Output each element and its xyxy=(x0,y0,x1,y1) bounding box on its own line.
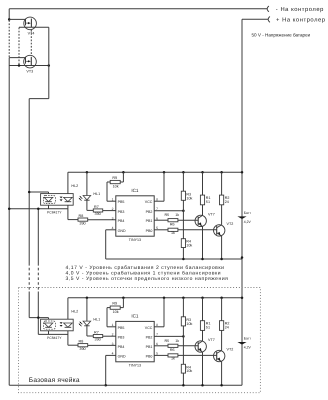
wire dashed VT4 source down xyxy=(18,28,20,66)
junction GND / bottom wire b xyxy=(104,384,107,387)
svg-text:390: 390 xyxy=(95,338,101,342)
junction left rail / minus a xyxy=(8,208,11,211)
wire VCC b xyxy=(154,326,164,328)
svg-text:- На контролер: - На контролер xyxy=(276,7,324,13)
svg-text:1: 1 xyxy=(112,197,114,201)
wire local-minus b xyxy=(38,333,68,335)
transistor VT7 b xyxy=(195,338,215,352)
svg-text:PB1: PB1 xyxy=(146,345,153,349)
wire R7 to pin3 a xyxy=(103,210,116,212)
svg-text:R7: R7 xyxy=(94,205,99,209)
svg-text:1k: 1k xyxy=(175,339,179,343)
svg-text:PC8417Y: PC8417Y xyxy=(47,336,62,340)
transistor VT7 a xyxy=(195,213,215,227)
svg-text:R8: R8 xyxy=(79,214,84,218)
opto photodiode a xyxy=(64,197,73,201)
opto LED diode a xyxy=(44,197,53,201)
node GND rail cell b xyxy=(106,384,242,386)
svg-text:1k: 1k xyxy=(171,357,175,361)
wire R9 down a xyxy=(106,182,108,201)
wire R5 to VT7 base a xyxy=(178,219,198,221)
wire bottom rail left extension b xyxy=(9,384,106,386)
wire R4 bottom b xyxy=(182,373,184,385)
resistor R8 a xyxy=(78,218,88,221)
wire GND down a xyxy=(105,230,107,259)
resistor R6 a xyxy=(168,228,178,231)
wire R3 top b xyxy=(182,298,184,317)
svg-text:Батт: Батт xyxy=(244,211,252,215)
svg-text:390: 390 xyxy=(79,222,85,226)
terminal arc plus xyxy=(268,17,270,23)
left rail top segment xyxy=(8,9,10,20)
wire GND pin4 b xyxy=(106,354,116,356)
wire pin6 b xyxy=(154,345,168,347)
svg-text:1k: 1k xyxy=(171,231,175,235)
resistor R3 a xyxy=(181,191,185,200)
svg-text:R5: R5 xyxy=(164,213,169,217)
left rail dashed segment xyxy=(8,20,10,57)
transistor VT3 MOSFET xyxy=(9,55,36,68)
opto light arrow 2 b xyxy=(60,325,63,327)
resistor R4 a xyxy=(181,239,185,248)
svg-text:R7: R7 xyxy=(94,330,99,334)
wire R2 top b xyxy=(221,298,223,321)
svg-text:390: 390 xyxy=(79,347,85,351)
wire R6 to VT2 base a xyxy=(178,229,217,231)
wire R1 to VT7 a xyxy=(202,205,204,216)
junction anode rail a xyxy=(28,191,31,194)
wire R9 to rail b xyxy=(122,298,124,308)
wire R9 right b xyxy=(120,307,123,309)
wire pin5 b xyxy=(154,354,168,356)
wire R9 left a xyxy=(107,181,110,183)
IC1 ATtiny13 a xyxy=(116,196,154,236)
svg-text:PB0: PB0 xyxy=(146,229,153,233)
svg-text:VT2: VT2 xyxy=(227,222,234,226)
wire R2 to VT2 a xyxy=(221,205,223,225)
opto light arrow 1 b xyxy=(60,322,63,324)
wire to R8 a xyxy=(68,219,78,221)
transistor VT4 MOSFET xyxy=(9,17,36,30)
svg-text:50 V - Напряжение батареи: 50 V - Напряжение батареи xyxy=(252,33,311,38)
svg-text:10k: 10k xyxy=(186,369,192,373)
resistor R2 a xyxy=(220,195,224,205)
optocoupler Ua PC8417Y body xyxy=(41,194,74,206)
wire cell feed rail x29 xyxy=(28,99,30,263)
svg-text:VCC: VCC xyxy=(145,200,153,204)
wire R1 to VT7 b xyxy=(202,330,204,341)
wire pin6 a xyxy=(154,219,168,221)
svg-text:+ На контролер: + На контролер xyxy=(276,17,326,23)
wire HL1 top a xyxy=(86,172,88,195)
node VCC rail cell a xyxy=(68,171,242,173)
wire R6 to VT2 base b xyxy=(178,354,217,356)
wire opto LED lead b xyxy=(48,318,50,335)
LED HL1 arrows a xyxy=(79,196,83,201)
svg-text:PB3: PB3 xyxy=(118,335,125,339)
svg-text:2: 2 xyxy=(112,207,114,211)
svg-text:PB5: PB5 xyxy=(118,200,125,204)
svg-text:10k: 10k xyxy=(113,310,119,314)
svg-text:R5: R5 xyxy=(164,339,169,343)
svg-text:HL2: HL2 xyxy=(71,309,78,313)
wire R3-R4 b xyxy=(182,326,184,364)
wire VT3 chord xyxy=(9,65,49,67)
optocoupler Ub PC8417Y body xyxy=(41,319,74,331)
svg-text:VT3: VT3 xyxy=(26,69,33,73)
resistor R7 a xyxy=(93,209,102,212)
svg-text:PB4: PB4 xyxy=(118,219,125,223)
right rail battery plus xyxy=(241,19,243,385)
wire dashed VT4-VT3 link xyxy=(30,30,32,55)
svg-text:IC1: IC1 xyxy=(131,313,139,318)
resistor R6 b xyxy=(168,354,178,357)
svg-text:HL2: HL2 xyxy=(71,184,78,188)
svg-text:1: 1 xyxy=(112,323,114,327)
svg-text:3: 3 xyxy=(112,216,114,220)
svg-text:VT2: VT2 xyxy=(227,348,234,352)
wire R3-R4 a xyxy=(182,200,184,238)
resistor R4 b xyxy=(181,364,185,373)
node VCC rail cell b xyxy=(68,297,242,299)
wire VT4 drain down xyxy=(48,27,50,98)
wire opto anode feed b xyxy=(29,317,48,319)
node Batt tap arrow b xyxy=(237,342,246,345)
wire local-minus to left rail a xyxy=(9,208,38,210)
svg-text:HL1: HL1 xyxy=(93,192,100,196)
svg-text:PB4: PB4 xyxy=(118,345,125,349)
wire HL1 cathode b xyxy=(86,326,88,336)
svg-text:R9: R9 xyxy=(112,302,117,306)
wire R9 left b xyxy=(107,307,110,309)
svg-text:2: 2 xyxy=(112,333,114,337)
svg-text:R6: R6 xyxy=(170,348,175,352)
svg-text:PB1: PB1 xyxy=(146,219,153,223)
resistor R9 b xyxy=(110,306,120,309)
svg-text:Батт: Батт xyxy=(244,336,252,340)
node GND rail cell a xyxy=(106,258,242,260)
svg-text:GND: GND xyxy=(118,354,126,358)
wire pin7 b xyxy=(154,335,183,337)
resistor R9 a xyxy=(110,180,120,183)
svg-text:3: 3 xyxy=(112,342,114,346)
wire pin7 a xyxy=(154,210,183,212)
svg-text:10k: 10k xyxy=(186,322,192,326)
svg-text:10k: 10k xyxy=(113,184,119,188)
wire to R7 a xyxy=(87,209,93,211)
svg-text:4,2V: 4,2V xyxy=(244,220,252,224)
LED HL1 arrows b xyxy=(79,321,83,326)
svg-text:PC8417Y: PC8417Y xyxy=(47,210,62,214)
wire plus to controller xyxy=(242,18,268,20)
transistor VT2 a xyxy=(214,222,234,236)
wire jog horizontal xyxy=(29,98,49,100)
opto light arrow 1 a xyxy=(60,197,63,199)
IC1 ATtiny13 b xyxy=(116,321,154,361)
svg-text:10k: 10k xyxy=(186,197,192,201)
svg-text:R9: R9 xyxy=(112,176,117,180)
wire to R7 b xyxy=(87,335,93,337)
svg-text:4,2V: 4,2V xyxy=(244,346,252,350)
wire local-minus a xyxy=(38,208,68,210)
svg-text:51: 51 xyxy=(206,200,210,204)
svg-text:VT7: VT7 xyxy=(208,213,215,217)
wire pin5 a xyxy=(154,229,168,231)
svg-text:10k: 10k xyxy=(186,243,192,247)
terminal arc minus xyxy=(267,6,269,12)
junction VT3 right xyxy=(48,64,51,67)
svg-text:GND: GND xyxy=(118,229,126,233)
wire opto anode feed a xyxy=(29,191,48,193)
wire R5 to VT7 base b xyxy=(178,345,198,347)
wire HL1 cathode a xyxy=(86,200,88,210)
svg-text:HL1: HL1 xyxy=(93,317,100,321)
wire R7 to pin3 b xyxy=(103,335,116,337)
wire VT4 source-drain chord xyxy=(19,26,49,28)
wire VT2 emitter a xyxy=(221,236,223,259)
svg-text:R8: R8 xyxy=(79,340,84,344)
wire R8 to pin2 b xyxy=(88,344,116,346)
wire inter-cell feed x38 xyxy=(37,209,39,263)
wire R9 to pin1 a xyxy=(107,200,116,202)
svg-text:PB0: PB0 xyxy=(146,354,153,358)
resistor R5 a xyxy=(168,219,178,222)
resistor R7 b xyxy=(93,335,102,338)
svg-text:TINY13: TINY13 xyxy=(129,364,141,368)
resistor R8 b xyxy=(78,344,88,347)
wire VCC riser a xyxy=(163,172,165,201)
opto photodiode b xyxy=(64,323,73,327)
node Batt tap arrow a xyxy=(237,216,246,219)
resistor R5 b xyxy=(168,344,178,347)
svg-text:24: 24 xyxy=(225,326,229,330)
top rail minus to controller xyxy=(9,8,267,10)
wire opto LED lead a xyxy=(48,192,50,209)
svg-text:1k: 1k xyxy=(175,213,179,217)
junction VT4 gate xyxy=(8,18,11,21)
junction bottom rail / right rail a xyxy=(241,256,244,259)
wire GND down b xyxy=(105,355,107,385)
wire R8 to pin2 a xyxy=(88,219,116,221)
svg-text:PB5: PB5 xyxy=(118,326,125,330)
left rail main xyxy=(8,58,10,386)
svg-text:VT7: VT7 xyxy=(208,338,215,342)
wire R2 top a xyxy=(221,172,223,195)
wire R2 to VT2 b xyxy=(221,330,223,350)
svg-text:3,5 V - Уровень отсечки преде: 3,5 V - Уровень отсечки предельного низк… xyxy=(66,276,229,282)
wire VCC riser b xyxy=(163,298,165,327)
resistor R3 b xyxy=(181,317,185,326)
optocoupler inner LED box b xyxy=(43,321,55,329)
wire R1 top b xyxy=(202,298,204,321)
wire R4 bottom a xyxy=(182,248,184,260)
svg-text:390: 390 xyxy=(95,212,101,216)
wire HL1 top b xyxy=(86,298,88,321)
transistor VT2 b xyxy=(214,348,234,362)
svg-text:VCC: VCC xyxy=(145,326,153,330)
wire R9 down b xyxy=(106,308,108,327)
resistor R1 a xyxy=(200,195,204,205)
svg-text:IC1: IC1 xyxy=(131,188,139,193)
svg-text:PB2: PB2 xyxy=(146,335,153,339)
wire R3 top a xyxy=(182,172,184,191)
wire VT2 emitter b xyxy=(221,362,223,386)
LED HL1 b xyxy=(83,321,91,325)
wire R9 to pin1 b xyxy=(107,326,116,328)
junction inter-cell feed b xyxy=(37,316,40,319)
wire R1 top a xyxy=(202,172,204,195)
optocoupler inner LED box a xyxy=(43,195,55,203)
resistor R2 b xyxy=(220,321,224,331)
svg-text:Базовая ячейка: Базовая ячейка xyxy=(29,377,80,384)
svg-text:24: 24 xyxy=(225,200,229,204)
wire R9 right a xyxy=(120,181,123,183)
LED HL1 a xyxy=(83,196,91,200)
opto light arrow 2 a xyxy=(60,199,63,201)
svg-text:PB2: PB2 xyxy=(146,210,153,214)
wire GND pin4 a xyxy=(106,229,116,231)
wire VCC a xyxy=(154,200,164,202)
wire VT7 emitter a xyxy=(202,227,204,260)
wire R9 to rail a xyxy=(122,172,124,182)
resistor R1 b xyxy=(200,321,204,331)
opto LED diode b xyxy=(44,323,53,327)
junction inter-cell b-feed a xyxy=(37,208,40,211)
svg-text:PB3: PB3 xyxy=(118,210,125,214)
svg-text:51: 51 xyxy=(206,326,210,330)
wire opto-right riser a xyxy=(67,172,69,219)
wire VT7 emitter b xyxy=(202,352,204,385)
dashed box base cell xyxy=(19,288,261,393)
wire to R8 b xyxy=(68,344,78,346)
svg-text:TINY13: TINY13 xyxy=(129,238,141,242)
wire opto-right riser b xyxy=(67,298,69,345)
junction VT3 left xyxy=(18,64,21,67)
svg-text:R6: R6 xyxy=(170,223,175,227)
